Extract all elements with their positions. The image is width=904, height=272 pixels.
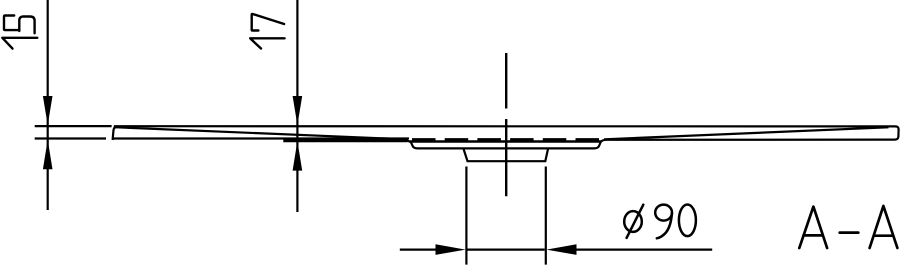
dimension text Ø90	[624, 205, 696, 239]
dimension 17 arrow down	[293, 96, 303, 125]
recess back edge (solid)	[410, 140, 602, 142]
dimension 15 arrow up	[43, 140, 53, 170]
dimension 15 arrow down	[43, 96, 53, 125]
Ø90 arrow left-pointing	[546, 244, 576, 255]
centerline	[505, 53, 507, 196]
drain spigot trapezoid	[463, 149, 548, 162]
dimension 15 line upper	[47, 0, 49, 210]
dimension text 17 (rotated)	[250, 14, 284, 49]
step and sloped top surface (left)	[113, 127, 408, 140]
tray bottom line left edge piece	[35, 137, 106, 139]
tray bottom line middle	[113, 137, 409, 139]
dimension text 15 (rotated)	[2, 16, 37, 49]
hidden grate edge (dashed)	[412, 138, 599, 140]
sloped top surface (right)	[604, 127, 889, 139]
tray top surface line, right end rounded, right bottom line, drain recess outline, recess lip line	[114, 126, 899, 148]
dimension 17 arrow up	[293, 141, 303, 171]
Ø90 extension line left	[465, 167, 467, 265]
drain recess lip line	[283, 139, 407, 142]
section label A-A	[799, 206, 897, 248]
Ø90 extension line right	[545, 167, 547, 265]
Ø90 arrow right-pointing	[436, 244, 466, 255]
Ø90 dimension line	[400, 249, 712, 251]
dimension 17 line upper	[296, 0, 298, 212]
tray top surface line (left of step)	[35, 125, 112, 127]
